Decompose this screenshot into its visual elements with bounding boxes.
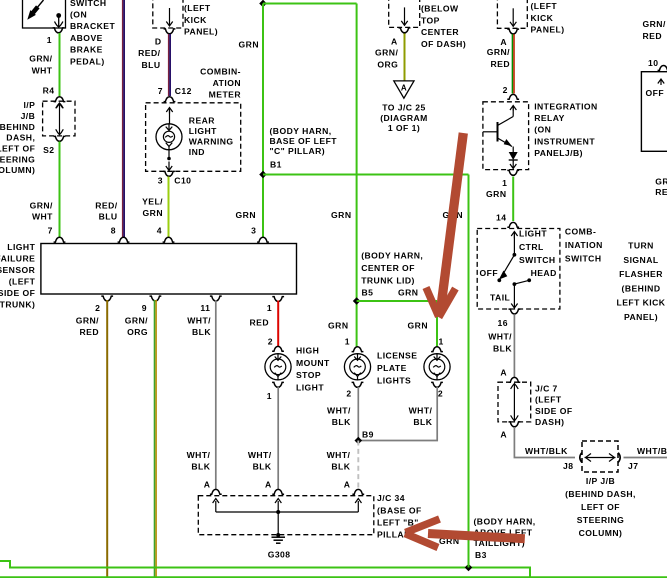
wire GRN B1 horizontal to right bbox=[263, 174, 469, 176]
svg-text:A: A bbox=[204, 480, 211, 490]
svg-text:DASH,: DASH, bbox=[6, 133, 35, 143]
svg-text:D: D bbox=[155, 37, 162, 47]
label (BODY HARN BASE OF LEFT C PILLAR) B1 bbox=[270, 126, 338, 170]
junction B1 (diamond) bbox=[259, 171, 267, 179]
svg-text:GRN: GRN bbox=[236, 210, 256, 220]
svg-text:WHT/: WHT/ bbox=[248, 450, 272, 460]
junction block right kick panel (dashed) bbox=[497, 0, 527, 28]
wire WHT/BLK dashed B9 to JC34 bbox=[357, 441, 359, 491]
wire RED/BLU (tail light feed) top edge to sensor pin 8 bbox=[123, 0, 125, 237]
svg-text:SWITCH: SWITCH bbox=[519, 255, 556, 265]
svg-text:2: 2 bbox=[95, 303, 100, 313]
label LIGHT CTRL SWITCH bbox=[519, 229, 556, 265]
svg-text:9: 9 bbox=[142, 303, 147, 313]
svg-text:(BEHIND DASH,: (BEHIND DASH, bbox=[565, 489, 636, 499]
svg-text:1 OF 1): 1 OF 1) bbox=[388, 123, 420, 133]
pin 9 bbox=[142, 296, 162, 313]
svg-text:1: 1 bbox=[502, 178, 507, 188]
svg-text:PLATE: PLATE bbox=[377, 363, 407, 373]
svg-text:WHT/: WHT/ bbox=[409, 406, 433, 416]
svg-text:RED: RED bbox=[655, 187, 667, 197]
svg-text:ATION: ATION bbox=[213, 78, 241, 88]
svg-text:GRN: GRN bbox=[408, 320, 428, 330]
arrow inside left kick panel box bbox=[166, 8, 172, 26]
svg-text:GRN/: GRN/ bbox=[655, 177, 667, 187]
svg-text:GRN/: GRN/ bbox=[643, 19, 666, 29]
label TO J/C 25 (DIAGRAM 1 OF 1) bbox=[380, 103, 428, 134]
svg-text:BEHIND: BEHIND bbox=[0, 122, 35, 132]
junction connector J/C 7 (dashed box) bbox=[498, 382, 531, 422]
label GRN on B5 line bbox=[398, 287, 418, 297]
wire bulb to meter bottom bbox=[166, 149, 172, 170]
svg-text:STEERING: STEERING bbox=[577, 515, 625, 525]
svg-text:"C" PILLAR): "C" PILLAR) bbox=[270, 146, 326, 156]
svg-text:A: A bbox=[391, 37, 398, 47]
svg-text:CENTER OF: CENTER OF bbox=[361, 263, 415, 273]
label GRN/WHT upper-left bbox=[29, 53, 53, 75]
wire WHT/BLK left lamp to B9 bbox=[357, 387, 359, 441]
left license plate light bulb bbox=[344, 354, 370, 380]
label OFF bbox=[480, 268, 499, 278]
svg-text:(BODY HARN,: (BODY HARN, bbox=[361, 251, 423, 261]
arrow inside below-dash box bbox=[401, 7, 407, 25]
svg-text:OFF: OFF bbox=[480, 268, 499, 278]
pin 1 right license lamp bbox=[431, 336, 444, 351]
combination switch (dashed box) bbox=[477, 229, 560, 310]
svg-text:(LEFT: (LEFT bbox=[535, 395, 562, 405]
svg-text:GRN: GRN bbox=[239, 40, 259, 50]
pin 2 of integration relay bbox=[503, 85, 520, 100]
svg-text:WHT/: WHT/ bbox=[187, 450, 211, 460]
wire GRN vertical x357 bbox=[356, 4, 358, 348]
label GRN/RED right edge bbox=[655, 177, 667, 197]
svg-text:I/P J/B: I/P J/B bbox=[586, 476, 615, 486]
svg-text:C10: C10 bbox=[174, 176, 191, 186]
label WHT/BLK right lamp bbox=[409, 406, 433, 428]
label INTEGRATION RELAY (ON INSTRUMENT PANEL J/B) bbox=[534, 102, 598, 158]
junction block left kick panel (dashed) bbox=[153, 0, 183, 28]
connector D bbox=[155, 29, 176, 47]
pin 2 left license lamp bbox=[346, 382, 363, 398]
red annotation arrow 2 (pointing left at J/C 34) bbox=[405, 519, 525, 548]
svg-text:I/P: I/P bbox=[23, 100, 35, 110]
label GRN x468 bottom bbox=[439, 536, 459, 546]
svg-text:BRACKET: BRACKET bbox=[70, 21, 115, 31]
svg-text:1: 1 bbox=[267, 303, 272, 313]
label WHT/BLK col pin11 lower bbox=[187, 450, 211, 472]
connector S2 bbox=[43, 136, 65, 155]
svg-text:WHT: WHT bbox=[32, 211, 53, 221]
svg-text:ABOVE: ABOVE bbox=[70, 33, 103, 43]
svg-text:2: 2 bbox=[438, 389, 443, 399]
svg-text:B1: B1 bbox=[270, 159, 282, 169]
arrows inside J/C 34 bbox=[213, 499, 362, 513]
label GRN/WHT lower-left bbox=[30, 200, 54, 221]
pin 2 bbox=[95, 296, 113, 313]
label GRN relay out bbox=[486, 189, 506, 199]
svg-text:MOUNT: MOUNT bbox=[296, 358, 330, 368]
label B9 bbox=[362, 429, 374, 439]
svg-text:RED/: RED/ bbox=[138, 48, 160, 58]
label WHT/BLK left lamp bbox=[327, 406, 351, 428]
svg-text:B9: B9 bbox=[362, 429, 374, 439]
pin 7 C12 bbox=[158, 86, 192, 102]
connector A right bbox=[344, 480, 364, 495]
label HEAD bbox=[531, 268, 557, 278]
svg-text:BLK: BLK bbox=[253, 462, 272, 472]
svg-text:RED: RED bbox=[643, 31, 663, 41]
svg-text:BLK: BLK bbox=[413, 417, 432, 427]
svg-text:TAIL: TAIL bbox=[490, 293, 510, 303]
svg-text:GRN: GRN bbox=[398, 287, 418, 297]
label COMBINATION METER bbox=[200, 66, 241, 99]
svg-text:A: A bbox=[500, 430, 507, 440]
svg-text:TO J/C 25: TO J/C 25 bbox=[382, 103, 426, 113]
headlight dimmer switch box (right edge, solid) bbox=[641, 72, 667, 152]
svg-text:GRN: GRN bbox=[486, 189, 506, 199]
svg-text:INATION: INATION bbox=[565, 240, 603, 250]
connector R4 bbox=[54, 97, 66, 102]
integration relay (dashed box) bbox=[483, 102, 529, 170]
svg-text:PANEL): PANEL) bbox=[531, 25, 565, 35]
svg-text:A: A bbox=[500, 368, 507, 378]
label GRN/RED top right bbox=[643, 19, 666, 41]
svg-text:CTRL: CTRL bbox=[519, 242, 544, 252]
label SWITCH (ON BRACKET ABOVE BRAKE PEDAL) bbox=[70, 0, 115, 66]
wire WHT/BLK right lamp to B9 bbox=[358, 387, 437, 441]
label YEL/GRN bbox=[142, 196, 163, 218]
svg-text:A: A bbox=[401, 84, 407, 93]
label GRN/RED right bbox=[487, 47, 510, 69]
svg-text:BLU: BLU bbox=[99, 211, 118, 221]
svg-text:J8: J8 bbox=[563, 461, 573, 471]
wire GRN relay to comb switch bbox=[512, 177, 514, 222]
right license plate light bulb bbox=[424, 354, 450, 380]
wire GRN vertical to B1 and pin 3 bbox=[262, 4, 264, 238]
pin 7 bbox=[48, 226, 66, 243]
svg-text:BRAKE: BRAKE bbox=[70, 45, 103, 55]
svg-text:7: 7 bbox=[48, 226, 53, 236]
svg-text:1: 1 bbox=[47, 35, 52, 45]
label (BODY HARN CENTER OF TRUNK LID) B5 bbox=[361, 251, 423, 298]
label WHT/BLK right col bbox=[488, 332, 512, 354]
label REAR LIGHT WARNING IND bbox=[189, 116, 234, 157]
svg-text:LICENSE: LICENSE bbox=[377, 351, 417, 361]
svg-text:METER: METER bbox=[209, 89, 242, 99]
svg-text:RED: RED bbox=[250, 317, 270, 327]
svg-text:SIDE OF: SIDE OF bbox=[535, 406, 573, 416]
transistor inside integration relay bbox=[483, 106, 513, 147]
svg-text:REAR: REAR bbox=[189, 116, 215, 126]
svg-text:LIGHT: LIGHT bbox=[189, 126, 217, 136]
svg-text:LEFT OF: LEFT OF bbox=[581, 502, 620, 512]
svg-text:WHT/BLK: WHT/BLK bbox=[525, 446, 568, 456]
rear light warning ind bulb bbox=[156, 124, 182, 150]
high mount stop light bulb bbox=[265, 354, 291, 380]
svg-text:RED: RED bbox=[80, 327, 100, 337]
label J8 bbox=[563, 461, 573, 471]
label WHT/BLK B9 col bbox=[327, 450, 351, 472]
label (LEFT KICK PANEL) right bbox=[531, 1, 565, 34]
svg-text:BLK: BLK bbox=[192, 327, 211, 337]
label GRN right lamp bbox=[408, 320, 428, 330]
svg-text:CENTER: CENTER bbox=[421, 27, 459, 37]
label RED bbox=[250, 317, 270, 327]
svg-text:IND: IND bbox=[189, 147, 205, 157]
svg-text:RED/: RED/ bbox=[95, 200, 117, 210]
wire GRN top horizontal bbox=[263, 3, 357, 5]
arrow inside right kick panel bbox=[510, 8, 516, 26]
label (BELOW TOP CENTER OF DASH) bbox=[421, 4, 466, 49]
connector A mid bbox=[265, 480, 284, 495]
junction block below top center of dash (dashed) bbox=[389, 0, 420, 27]
label HIGH MOUNT STOP LIGHT bbox=[296, 346, 330, 393]
svg-text:8: 8 bbox=[111, 226, 116, 236]
svg-text:BASE OF LEFT: BASE OF LEFT bbox=[270, 136, 338, 146]
wire GRN/RED kick panel to relay pin2 bbox=[512, 34, 514, 93]
label OFF in right box bbox=[646, 88, 665, 98]
wire WHT/BLK pin11 down to JC34 bbox=[215, 300, 217, 490]
svg-text:G308: G308 bbox=[268, 550, 291, 560]
pin 14 bbox=[496, 213, 519, 228]
svg-text:FAILURE: FAILURE bbox=[0, 254, 35, 264]
wire GRN B5 horizontal bbox=[357, 300, 437, 302]
label RED/BLU column3 bbox=[138, 48, 160, 70]
svg-text:PANELJ/B): PANELJ/B) bbox=[534, 148, 583, 158]
arrow in right box bbox=[658, 79, 664, 85]
svg-text:GRN/: GRN/ bbox=[487, 47, 510, 57]
pin 2 right license lamp bbox=[431, 382, 443, 398]
pin 16 bbox=[498, 309, 521, 328]
wire WHT/BLK high mount to JC34 bbox=[277, 387, 279, 490]
svg-text:11: 11 bbox=[200, 303, 210, 313]
svg-text:WARNING: WARNING bbox=[189, 136, 234, 146]
pin 8 bbox=[111, 226, 130, 243]
svg-text:2: 2 bbox=[268, 337, 273, 347]
svg-text:RELAY: RELAY bbox=[534, 113, 565, 123]
svg-text:(BEHIND: (BEHIND bbox=[622, 283, 661, 293]
label GRN/ORG mid bbox=[375, 47, 398, 69]
svg-text:4: 4 bbox=[157, 226, 162, 236]
double arrow inside I/P J/B bbox=[56, 103, 64, 135]
label J/C 34 (BASE OF LEFT B PILLAR) bbox=[377, 493, 422, 540]
label GRN/ORG col bbox=[125, 315, 148, 337]
connector A left bbox=[204, 480, 222, 495]
wire GRN/WHT switch pin1 to R4 bbox=[59, 33, 61, 96]
svg-text:14: 14 bbox=[496, 213, 506, 223]
svg-text:1: 1 bbox=[439, 336, 444, 346]
label RED/BLU column2 bbox=[95, 200, 117, 221]
svg-text:A: A bbox=[344, 480, 351, 490]
svg-text:(BELOW: (BELOW bbox=[421, 4, 459, 14]
junction B5 (diamond) bbox=[353, 297, 361, 305]
stop light switch (top left, solid box) bbox=[23, 0, 66, 28]
svg-text:COMBIN-: COMBIN- bbox=[200, 66, 241, 76]
svg-text:LEFT KICK: LEFT KICK bbox=[617, 298, 666, 308]
svg-text:J/C 34: J/C 34 bbox=[377, 493, 405, 503]
junction dot inside J/C 34 bbox=[276, 510, 280, 535]
svg-text:(BASE OF: (BASE OF bbox=[377, 505, 422, 515]
connector A below-dash bbox=[391, 28, 410, 47]
svg-text:C12: C12 bbox=[175, 86, 192, 96]
svg-text:(ON: (ON bbox=[70, 10, 87, 20]
svg-text:DASH): DASH) bbox=[535, 417, 564, 427]
svg-text:(DIAGRAM: (DIAGRAM bbox=[380, 113, 428, 123]
svg-text:GRN: GRN bbox=[143, 208, 163, 218]
junction B9 (diamond) bbox=[355, 437, 363, 445]
svg-text:(LEFT: (LEFT bbox=[9, 276, 36, 286]
svg-text:J/C 7: J/C 7 bbox=[535, 383, 558, 393]
wire GRN/RED pin2 to bottom bbox=[106, 300, 108, 578]
label I/P J/B (BEHIND DASH LEFT OF STEERING COLUMN) bbox=[0, 100, 35, 175]
svg-text:ORG: ORG bbox=[127, 327, 148, 337]
wire GRN bottom edge full width bbox=[0, 576, 667, 578]
combination meter (dashed box) bbox=[146, 103, 241, 172]
svg-text:J/B: J/B bbox=[21, 111, 36, 121]
double arrow inside J/C 7 bbox=[511, 384, 519, 421]
label GRN col4 top bbox=[239, 40, 259, 50]
label WHT/BLK horizontal bbox=[525, 446, 568, 456]
junction node top (diamond) bbox=[259, 0, 267, 7]
svg-text:OFF: OFF bbox=[646, 88, 665, 98]
wire GRN down to right license lamp bbox=[436, 301, 438, 347]
pin 4 bbox=[157, 226, 175, 243]
label TAIL bbox=[490, 293, 510, 303]
label I/P J/B (BEHIND DASH LEFT OF STEERING COLUMN) bottom right bbox=[565, 476, 636, 538]
connector pin 1 of stop light switch bbox=[47, 28, 65, 45]
svg-text:WHT: WHT bbox=[32, 65, 53, 75]
svg-text:2: 2 bbox=[346, 389, 351, 399]
svg-text:(BODY HARN,: (BODY HARN, bbox=[474, 517, 536, 527]
svg-text:STOP: STOP bbox=[296, 370, 321, 380]
svg-text:INTEGRATION: INTEGRATION bbox=[534, 102, 598, 112]
svg-text:EERING: EERING bbox=[0, 154, 35, 164]
svg-text:GRN/: GRN/ bbox=[375, 47, 398, 57]
wire GRN/ORG to triangle bbox=[404, 34, 406, 81]
pin 1 of high mount lamp bbox=[267, 382, 284, 401]
junction wire connector J8-J7 (dashed box) bbox=[582, 441, 618, 472]
wire WHT/BLK J7 to right edge bbox=[624, 457, 667, 459]
junction block I/P J/B left (dashed) bbox=[43, 101, 75, 136]
svg-text:PEDAL): PEDAL) bbox=[70, 56, 105, 66]
label LIGHT FAILURE SENSOR (LEFT SIDE OF TRUNK) bbox=[0, 242, 36, 309]
label GRN x357 bbox=[331, 210, 351, 220]
svg-text:SIGNAL: SIGNAL bbox=[623, 255, 658, 265]
connector pin 10 bbox=[658, 66, 667, 71]
pin 1 of integration relay bbox=[502, 170, 519, 188]
light failure sensor (solid box) bbox=[41, 244, 297, 295]
svg-text:B5: B5 bbox=[362, 288, 374, 298]
svg-text:BLK: BLK bbox=[493, 344, 512, 354]
svg-text:1: 1 bbox=[267, 391, 272, 401]
junction B3 (diamond) bbox=[465, 564, 473, 572]
label (BODY HARN ABOVE LEFT TAILLIGHT) B3 bbox=[474, 517, 536, 560]
label J7 bbox=[628, 461, 638, 471]
wire GRN vertical x468 long bbox=[468, 175, 470, 568]
svg-text:WHT/: WHT/ bbox=[327, 450, 351, 460]
label GRN/RED col2 bbox=[76, 315, 99, 337]
svg-text:LIGHT: LIGHT bbox=[7, 242, 35, 252]
svg-text:FLASHER: FLASHER bbox=[619, 269, 663, 279]
svg-text:OLUMN): OLUMN) bbox=[0, 165, 35, 175]
svg-text:KICK: KICK bbox=[184, 15, 207, 25]
triangle connector A to J/C 25 bbox=[394, 81, 414, 98]
svg-text:YEL/: YEL/ bbox=[142, 196, 163, 206]
svg-text:10: 10 bbox=[648, 58, 658, 68]
wire RED/BLU D to C12 bbox=[169, 34, 171, 96]
svg-text:WHT/: WHT/ bbox=[327, 406, 351, 416]
svg-text:BLK: BLK bbox=[331, 462, 350, 472]
red annotation arrow 1 (pointing down at license lamp feed) bbox=[426, 133, 463, 317]
svg-text:HEAD: HEAD bbox=[531, 268, 557, 278]
pin 1 bbox=[267, 297, 284, 313]
svg-text:S2: S2 bbox=[43, 145, 54, 155]
label WHT/BLK col highmount lower bbox=[248, 450, 272, 472]
label GRN col4 lower bbox=[236, 210, 256, 220]
svg-text:COLUMN): COLUMN) bbox=[579, 528, 623, 538]
diode inside integration relay bbox=[509, 147, 518, 169]
connector A above J/C7 bbox=[500, 368, 520, 383]
label GRN x468 mid bbox=[443, 210, 463, 220]
label J/C 7 (LEFT SIDE OF DASH) bbox=[535, 383, 573, 427]
svg-text:ORG: ORG bbox=[377, 60, 398, 70]
svg-text:BLU: BLU bbox=[141, 60, 160, 70]
svg-text:TRUNK): TRUNK) bbox=[0, 299, 35, 309]
svg-text:LIGHTS: LIGHTS bbox=[377, 375, 411, 385]
pin 2 of high mount lamp bbox=[268, 337, 284, 352]
svg-text:HIGH: HIGH bbox=[296, 346, 319, 356]
svg-text:BLK: BLK bbox=[191, 462, 210, 472]
label COMBINATION SWITCH right bbox=[565, 227, 603, 264]
label (LEFT KICK PANEL) bbox=[184, 3, 218, 37]
svg-text:GRN/: GRN/ bbox=[125, 315, 148, 325]
label R4 bbox=[43, 86, 55, 96]
svg-text:(LEFT: (LEFT bbox=[531, 1, 558, 11]
svg-text:SWITCH: SWITCH bbox=[565, 254, 602, 264]
arrow into meter bbox=[166, 108, 172, 125]
svg-text:SIDE OF: SIDE OF bbox=[0, 288, 35, 298]
svg-text:J7: J7 bbox=[628, 461, 638, 471]
label LICENSE PLATE LIGHTS bbox=[377, 351, 417, 386]
svg-text:A: A bbox=[500, 37, 507, 47]
ground G308 bbox=[272, 533, 286, 543]
svg-text:KICK: KICK bbox=[531, 13, 554, 23]
svg-text:PANEL): PANEL) bbox=[184, 27, 218, 37]
svg-text:PANEL): PANEL) bbox=[624, 312, 658, 322]
svg-text:WHT/B: WHT/B bbox=[637, 446, 667, 456]
svg-text:GRN: GRN bbox=[331, 210, 351, 220]
connector A right kick panel bbox=[500, 29, 519, 47]
svg-text:TOP: TOP bbox=[421, 15, 440, 25]
svg-text:TURN: TURN bbox=[628, 241, 654, 251]
wire WHT/BLK J/C7 to J8 bbox=[514, 427, 575, 458]
svg-text:WHT/: WHT/ bbox=[488, 332, 512, 342]
wire RED pin1 to high mount lamp bbox=[277, 301, 279, 348]
svg-text:GRN/: GRN/ bbox=[29, 53, 52, 63]
svg-text:A: A bbox=[265, 480, 272, 490]
wire WHT/BLK comb switch to J/C7 bbox=[513, 314, 515, 378]
label WHT/B right edge bbox=[637, 446, 667, 456]
svg-text:(BODY HARN,: (BODY HARN, bbox=[270, 126, 332, 136]
svg-text:LIGHT: LIGHT bbox=[519, 229, 547, 239]
svg-text:INSTRUMENT: INSTRUMENT bbox=[534, 136, 595, 146]
svg-text:SENSOR: SENSOR bbox=[0, 265, 36, 275]
svg-text:3: 3 bbox=[251, 226, 256, 236]
label TURN SIGNAL FLASHER (BEHIND LEFT KICK PANEL) bbox=[617, 241, 666, 323]
svg-text:3: 3 bbox=[158, 176, 163, 186]
light ctrl switch contacts bbox=[497, 233, 531, 308]
label pin 10 bbox=[648, 58, 658, 68]
